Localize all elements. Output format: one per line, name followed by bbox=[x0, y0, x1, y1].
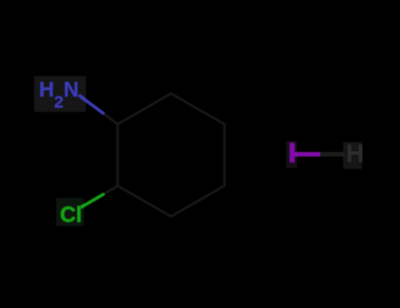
bond I-H, iodine half (purple) bbox=[295, 152, 321, 157]
halo box behind I label bbox=[286, 141, 297, 168]
svg-text:Cl: Cl bbox=[60, 202, 82, 227]
halo box behind H label bbox=[343, 142, 362, 169]
halo box behind Cl label bbox=[56, 198, 84, 226]
benzene/cyclohexane ring (dark carbon skeleton) bbox=[118, 94, 225, 217]
bond N to ring, nitrogen half (blue) bbox=[80, 96, 103, 113]
bond I-H, hydrogen half (dark) bbox=[320, 152, 345, 157]
ring bond A-B (upper-left to top) bbox=[118, 94, 171, 125]
bond Cl to ring, chlorine half (green) bbox=[82, 195, 103, 207]
svg-text:H: H bbox=[346, 140, 364, 168]
bond Cl to ring, carbon half (dark) bbox=[103, 186, 118, 195]
ring bond C-D (right vertical) bbox=[223, 124, 226, 186]
label I (iodine, drawn as bar) bbox=[290, 143, 295, 162]
halo box behind H2N label bbox=[34, 76, 86, 112]
ring bond E-F (bottom to lower-left) bbox=[118, 186, 171, 217]
ring bond F-A (left vertical) bbox=[116, 124, 119, 186]
ring bond D-E (lower-right to bottom) bbox=[171, 186, 224, 217]
bond N to ring, carbon half (dark) bbox=[103, 113, 118, 124]
ring bond B-C (top to upper-right) bbox=[171, 94, 224, 125]
